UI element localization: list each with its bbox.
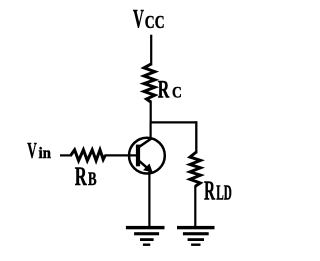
label Vin	[27, 137, 51, 162]
svg-text:B: B	[88, 169, 97, 190]
label RB	[75, 162, 97, 191]
wire node to collector	[150, 122, 152, 139]
label Rc	[158, 77, 182, 104]
label RLD	[204, 175, 232, 205]
resistor RLD	[190, 152, 201, 186]
resistor Rc	[144, 64, 155, 102]
ground (RLD)	[177, 226, 215, 246]
wire node to RLD	[195, 121, 197, 153]
wire emitter to ground	[148, 172, 150, 228]
svg-text:CC: CC	[145, 12, 165, 32]
svg-text:C: C	[172, 85, 182, 102]
ground (emitter)	[126, 226, 165, 246]
svg-text:R: R	[204, 175, 215, 205]
svg-text:V: V	[133, 5, 144, 34]
wire RLD to ground	[194, 186, 196, 228]
svg-text:LD: LD	[216, 180, 232, 204]
wire node to RLD branch (horizontal)	[150, 121, 198, 123]
wire RB to base	[105, 154, 138, 156]
transistor Q1	[129, 138, 165, 174]
svg-text:in: in	[39, 145, 52, 162]
resistor RB	[71, 150, 106, 161]
wire Rc to collector node	[150, 101, 152, 124]
svg-text:R: R	[75, 162, 87, 191]
svg-text:R: R	[158, 77, 170, 104]
wire Vin to RB	[60, 154, 72, 156]
svg-text:V: V	[27, 137, 37, 162]
wire Vcc to Rc	[150, 35, 152, 66]
label Vcc	[133, 5, 165, 34]
